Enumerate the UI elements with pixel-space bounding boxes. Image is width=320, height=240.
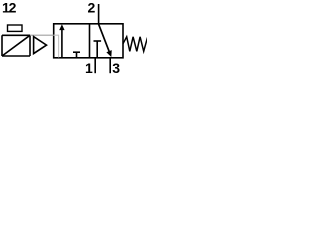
svg-text:1: 1 <box>85 60 93 76</box>
svg-text:3: 3 <box>112 60 120 76</box>
svg-text:2: 2 <box>88 0 96 16</box>
svg-text:12: 12 <box>2 0 17 16</box>
